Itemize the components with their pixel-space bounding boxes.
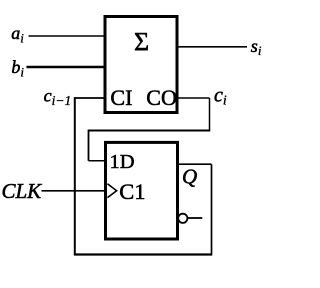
wire Q output (179, 163, 212, 165)
wire CI stub (74, 97, 104, 99)
wire feedback bottom (74, 253, 212, 255)
wire 1D stub (89, 160, 106, 162)
svg-text:CLK: CLK (2, 179, 43, 203)
wire CO stub (178, 97, 210, 99)
wire feedback left vertical (74, 97, 76, 255)
flip-flop U2 (D flip-flop box) (106, 142, 178, 239)
adder U1 (full adder sigma box) (105, 17, 177, 113)
svg-text:C1: C1 (119, 179, 145, 204)
svg-text:CO: CO (146, 85, 177, 110)
flip-flop U2 clock triangle (108, 184, 117, 198)
wire c_i down to 1D (88, 130, 90, 161)
svg-text:Q: Q (182, 165, 197, 189)
wire Qbar stub (188, 217, 203, 219)
svg-text:Σ: Σ (134, 28, 149, 57)
wire c_i vertical drop (209, 98, 211, 131)
wire a_i input (29, 35, 105, 37)
wire CLK input (42, 190, 106, 192)
svg-text:CI: CI (110, 85, 132, 110)
wire c_i return horizontal (89, 130, 211, 132)
wire b_i input (27, 66, 105, 69)
wire feedback right vertical (211, 164, 213, 254)
wire s_i output (178, 46, 247, 48)
inverted output bubble (178, 214, 187, 223)
svg-text:1D: 1D (110, 151, 135, 173)
